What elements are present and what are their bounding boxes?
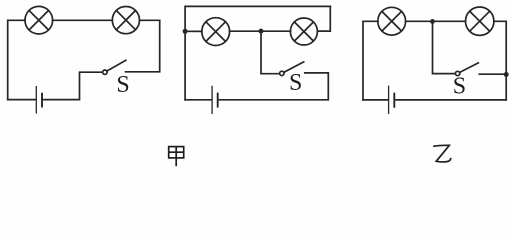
wire: circuit3 dot to lamp6: [433, 20, 466, 22]
lamp L6: [466, 7, 494, 35]
lamp L3: [202, 18, 230, 46]
switch S (circuit2) pivot: [280, 71, 284, 75]
node: circuit2 left junction dot: [183, 29, 188, 34]
battery B3 negative plate (short): [393, 94, 395, 107]
svg-text:S: S: [453, 74, 466, 100]
switch S (circuit1) pivot: [103, 70, 107, 74]
wire: circuit1 between lamps: [53, 19, 113, 21]
label: Chinese character yi (circuit group 乙) drawn as strokes: [433, 145, 451, 162]
wire: circuit1 switch left lead, step down to bottom rail: [43, 72, 102, 99]
wire: circuit3 dot down to switch: [433, 21, 456, 73]
switch S (circuit1) blade: [107, 60, 126, 71]
svg-text:S: S: [116, 72, 129, 98]
battery B1 positive plate (long): [35, 87, 37, 113]
switch S (circuit3) blade: [460, 63, 479, 73]
wire: circuit2 lamp3 to middle dot: [230, 30, 261, 32]
switch S (circuit2) blade: [284, 62, 304, 72]
switch S (circuit3) pivot: [455, 71, 459, 75]
wire: circuit1 top-right + right side down to switch: [126, 20, 160, 72]
wire: circuit3 lamp5 to dot: [406, 20, 433, 22]
battery B3 positive plate (long): [388, 86, 390, 113]
wire: circuit2 bottom-left rail segment: [185, 99, 211, 101]
wire: circuit3 switch right contact: [479, 73, 506, 75]
wire: circuit3 left side: [363, 21, 378, 100]
wire: circuit2 middle dot down to switch: [261, 31, 280, 73]
node: circuit2 middle junction dot: [259, 29, 264, 34]
lamp L5: [378, 7, 406, 35]
battery B2 positive plate (long): [211, 86, 213, 113]
wire: circuit3 lamp6 to right side down: [494, 21, 506, 100]
lamp L4: [290, 18, 317, 45]
svg-text:S: S: [289, 70, 302, 96]
wire: circuit1 bottom-left rail: [8, 99, 36, 101]
label: Chinese character jia (circuit group 甲) drawn as strokes: [169, 147, 184, 167]
wire: circuit2 middle dot to lamp4: [261, 30, 291, 32]
wire: circuit1 top-left lead: [8, 20, 26, 99]
node: circuit3 top junction dot: [430, 19, 435, 24]
battery B1 negative plate (short): [41, 94, 43, 107]
wire: circuit2 left dot to lamp3: [185, 30, 202, 32]
node: circuit3 right junction dot: [504, 72, 509, 77]
wire: circuit2 switch right contact down to bottom rail: [220, 73, 329, 100]
lamp L1: [25, 6, 53, 34]
battery B2 negative plate (short): [217, 94, 219, 107]
wire: circuit3 bottom rail right segment: [396, 99, 506, 101]
wire: circuit3 bottom-left rail segment: [363, 99, 388, 101]
lamp L2: [112, 7, 139, 34]
wire: circuit2 top rail and left side: [185, 6, 330, 99]
wire: circuit2 lamp4 to top-right corner: [317, 6, 330, 31]
